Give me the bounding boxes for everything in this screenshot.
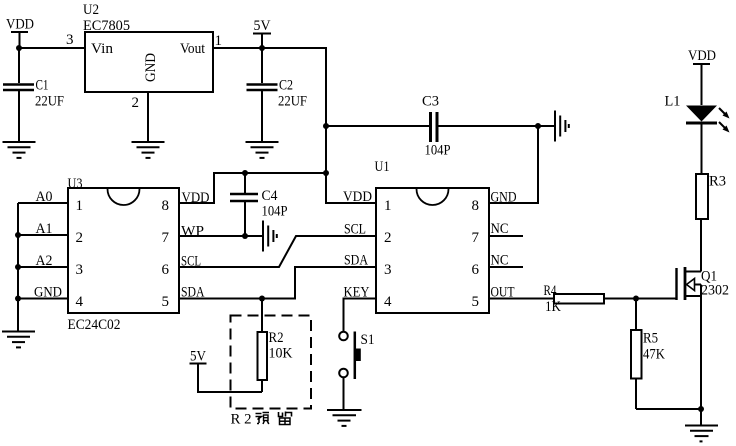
resistor R5 — [631, 299, 665, 410]
svg-text:2: 2 — [76, 230, 84, 246]
U3 pin 1 A0 — [18, 189, 83, 214]
label R2 reserved (R 2 yu liu) — [231, 412, 292, 428]
svg-text:C4: C4 — [262, 188, 278, 204]
wire net SDA: U3 pin5 to U1 pin3 — [179, 267, 376, 299]
svg-text:22UF: 22UF — [278, 94, 307, 110]
svg-text:5: 5 — [472, 294, 480, 310]
junction node U1 GND branch — [535, 123, 541, 129]
CJK glyph liu2 — [279, 412, 292, 425]
svg-text:1: 1 — [215, 33, 223, 49]
wire C3 right plate to ground — [438, 125, 554, 127]
svg-text:R4: R4 — [544, 283, 557, 299]
wire net SCL: U3 pin6 to U1 pin2 — [179, 236, 376, 267]
capacitor C2 — [247, 48, 308, 141]
svg-text:22UF: 22UF — [35, 94, 64, 110]
wire junction to ground (bottom right) — [700, 409, 702, 426]
svg-text:2: 2 — [132, 95, 140, 111]
svg-text:4: 4 — [384, 294, 392, 310]
svg-text:2: 2 — [384, 230, 392, 246]
svg-text:5: 5 — [162, 294, 170, 310]
ground (right of C3, rotated) — [555, 111, 569, 142]
U1 pin 5 OUT — [472, 285, 555, 311]
svg-text:1K: 1K — [545, 299, 561, 315]
svg-text:L1: L1 — [665, 94, 681, 110]
U3 pin 5 SDA — [162, 285, 205, 311]
svg-text:R3: R3 — [709, 174, 726, 190]
svg-text:R2: R2 — [269, 330, 284, 346]
junction node R4/R5/gate — [633, 296, 639, 302]
U1 pin 4 KEY — [344, 285, 393, 311]
junction node VDD/C1 — [16, 45, 22, 51]
svg-text:GND: GND — [143, 53, 159, 82]
junction node A1 — [15, 232, 21, 238]
wire VDD node to U2 Vin (pin 3) — [19, 47, 85, 49]
U1 pin 6 NC — [472, 253, 524, 279]
svg-text:3: 3 — [384, 262, 392, 278]
svg-text:7: 7 — [162, 230, 170, 246]
resistor R4 — [544, 283, 605, 315]
ground (below C2) — [246, 142, 279, 158]
ground (bottom right) — [685, 426, 718, 442]
power flag 5V (R2) — [190, 349, 207, 365]
svg-text:GND: GND — [491, 190, 517, 206]
svg-text:R 2: R 2 — [231, 412, 252, 428]
wire U3 WP pin 7 to ground — [179, 235, 263, 237]
svg-text:VDD: VDD — [343, 189, 372, 205]
svg-text:1: 1 — [76, 198, 84, 214]
junction node 5V/C2 — [259, 45, 265, 51]
resistor R3 — [696, 174, 726, 220]
ground (below S1) — [327, 410, 362, 426]
capacitor C4 — [230, 173, 288, 236]
svg-text:Vin: Vin — [91, 41, 113, 57]
svg-text:NC: NC — [491, 221, 509, 237]
U3 pin 7 WP — [162, 224, 205, 247]
junction node C3 branch — [323, 123, 329, 129]
wire 5V rail vertical segment to U1 VDD pin 1 — [326, 48, 376, 203]
wire net KEY: U1 pin4 to S1 — [344, 299, 377, 332]
svg-text:SDA: SDA — [344, 253, 368, 269]
svg-text:104P: 104P — [262, 204, 288, 220]
U1 pin 3 SDA — [344, 253, 392, 279]
LED arrow 2 — [719, 122, 726, 129]
U1 pin 8 GND — [472, 190, 517, 215]
regulator U2 EC7805 body — [85, 32, 213, 92]
svg-text:S1: S1 — [361, 332, 375, 348]
transistor Q1 2302 (NMOS) — [677, 219, 730, 409]
wire 5V rail to U3 VDD pin 8 — [179, 173, 326, 203]
power flag VDD (top left) — [6, 17, 34, 49]
svg-text:VDD: VDD — [6, 17, 34, 33]
svg-text:C1: C1 — [36, 78, 49, 94]
svg-text:C2: C2 — [279, 78, 293, 94]
U3 pin 4 GND — [18, 285, 84, 311]
wire U1 GND pin 8 to ground net — [489, 126, 538, 203]
wire S1 to ground — [343, 377, 345, 409]
ground (below U2) — [132, 142, 165, 158]
svg-text:Vout: Vout — [180, 41, 206, 57]
junction node SDA/R2 — [259, 296, 265, 302]
U3 pin 8 VDD — [162, 190, 210, 214]
svg-text:EC7805: EC7805 — [83, 18, 130, 34]
wire U2 Vout (pin 1) to 5V rail corner — [213, 47, 327, 49]
svg-text:KEY: KEY — [344, 285, 370, 301]
junction node U3 GND — [15, 296, 21, 302]
svg-text:WP: WP — [181, 224, 204, 240]
svg-text:U1: U1 — [375, 159, 390, 175]
junction node C4/WP — [242, 233, 248, 239]
IC U1 body — [376, 188, 489, 313]
svg-text:SCL: SCL — [344, 222, 366, 238]
ground (below C1) — [3, 142, 36, 158]
IC U3 EC24C02 body — [68, 188, 179, 313]
U3 pin 6 SCL — [162, 254, 202, 279]
U1 pin 7 NC — [472, 221, 524, 246]
svg-text:47K: 47K — [643, 347, 665, 363]
svg-text:7: 7 — [472, 230, 480, 246]
resistor R2 — [258, 299, 293, 393]
svg-text:R5: R5 — [643, 331, 658, 347]
svg-text:10K: 10K — [269, 346, 293, 362]
CJK glyph yu4 — [256, 413, 270, 425]
wire address bus A0-A2-GND vertical — [17, 203, 19, 331]
svg-text:8: 8 — [472, 198, 480, 214]
U1 pin 1 VDD — [343, 189, 392, 214]
ground (WP, rotated) — [263, 221, 277, 252]
ground (below A bus) — [2, 332, 35, 348]
svg-text:104P: 104P — [425, 143, 451, 159]
svg-text:U3: U3 — [68, 176, 83, 192]
svg-text:6: 6 — [162, 262, 170, 278]
U1 pin 2 SCL — [344, 222, 392, 247]
svg-text:VDD: VDD — [688, 48, 716, 64]
svg-text:4: 4 — [76, 294, 84, 310]
wire U2 GND pin 2 to ground — [147, 92, 149, 141]
svg-text:5V: 5V — [190, 349, 206, 365]
LED arrow 1 — [719, 108, 726, 115]
junction node U3 VDD branch — [323, 170, 329, 176]
capacitor C1 — [3, 48, 64, 141]
svg-text:C3: C3 — [422, 94, 439, 110]
wire R5 bottom rail to Q1 source — [636, 408, 701, 410]
svg-text:2302: 2302 — [701, 283, 729, 299]
power flag VDD (top right) — [688, 48, 716, 105]
junction node A2 — [15, 264, 21, 270]
junction node source/ground — [698, 406, 704, 412]
svg-text:U2: U2 — [83, 2, 99, 18]
junction node C4 top — [242, 170, 248, 176]
U3 pin 2 A1 — [18, 221, 83, 246]
capacitor C3 — [422, 94, 451, 159]
LED L1 — [665, 94, 730, 175]
wire 5V rail to C3 left plate — [326, 125, 429, 127]
svg-text:3: 3 — [76, 262, 84, 278]
svg-text:6: 6 — [472, 262, 480, 278]
switch S1 — [339, 332, 374, 380]
wire R4 to Q1 gate — [604, 298, 676, 300]
svg-text:8: 8 — [162, 198, 170, 214]
U3 pin 3 A2 — [18, 253, 83, 278]
svg-text:3: 3 — [66, 32, 74, 48]
power flag 5V — [253, 18, 271, 48]
svg-text:EC24C02: EC24C02 — [68, 317, 121, 333]
svg-text:VDD: VDD — [182, 190, 210, 206]
svg-text:5V: 5V — [254, 18, 271, 34]
wire R2 bottom to 5V flag — [198, 364, 262, 392]
svg-text:1: 1 — [384, 198, 392, 214]
dashed outline (R2 reserved) — [231, 316, 312, 409]
